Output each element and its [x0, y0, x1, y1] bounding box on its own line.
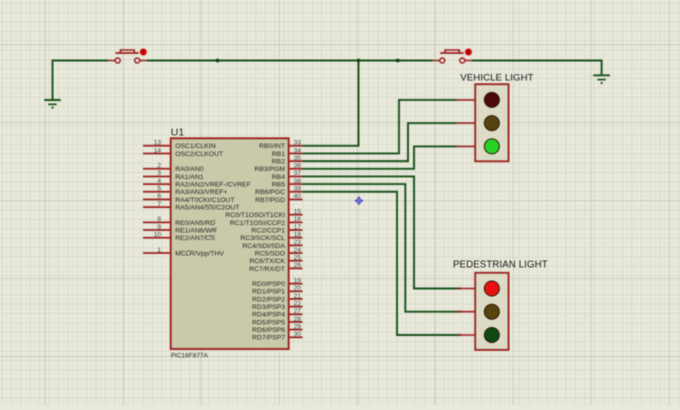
pin 24 (RC5/SDO) stub	[289, 252, 303, 254]
svg-text:MCLR/Vpp/THV: MCLR/Vpp/THV	[175, 250, 224, 257]
svg-text:RB4: RB4	[272, 174, 285, 181]
svg-text:15: 15	[294, 209, 302, 216]
pin 23 (RC4/SDI/SDA) stub	[289, 244, 303, 246]
svg-text:29: 29	[294, 323, 302, 330]
pin 33 (RB0/INT) stub	[289, 145, 303, 147]
actuator marker of button SW2	[465, 49, 472, 56]
svg-text:RC2/CCP1: RC2/CCP1	[251, 227, 285, 234]
svg-text:RD7/PSP7: RD7/PSP7	[252, 335, 285, 342]
svg-text:23: 23	[294, 239, 302, 246]
wire: RB5 pin38 to pedestrian amber	[303, 184, 462, 312]
vehicle light red terminal stub	[457, 99, 476, 101]
svg-text:RE0/AN5/RD: RE0/AN5/RD	[175, 220, 215, 227]
svg-text:21: 21	[294, 293, 302, 300]
svg-text:RE2/AN7/CS: RE2/AN7/CS	[175, 235, 215, 242]
wire: RB1 pin34 to vehicle red	[303, 100, 457, 154]
svg-text:34: 34	[294, 147, 302, 154]
svg-text:VEHICLE LIGHT: VEHICLE LIGHT	[460, 73, 533, 84]
pin 38 (RB5) stub	[289, 183, 303, 185]
svg-text:RC3/SCK/SCL: RC3/SCK/SCL	[240, 235, 285, 242]
svg-text:RB3/PGM: RB3/PGM	[254, 166, 285, 173]
pedestrian light green lamp	[484, 328, 499, 343]
svg-text:RA0/AN0: RA0/AN0	[175, 166, 204, 173]
svg-text:25: 25	[294, 255, 302, 262]
svg-text:26: 26	[294, 262, 302, 269]
pin 10 (RE2/AN7/CS) stub	[143, 237, 171, 239]
vehicle light amber terminal stub	[457, 122, 476, 124]
pin 7 (RA5/AN4/SS/C2OUT) stub	[143, 206, 171, 208]
push button SW2	[433, 50, 472, 63]
svg-text:37: 37	[294, 170, 302, 177]
pin 39 (RB6/PGC) stub	[289, 191, 303, 193]
pedestrian light amber lamp	[484, 304, 499, 319]
svg-text:RA3/AN3/VREF+: RA3/AN3/VREF+	[175, 189, 227, 196]
svg-text:RE1/AN6/WR: RE1/AN6/WR	[175, 227, 217, 234]
svg-text:27: 27	[294, 308, 302, 315]
ground (right)	[593, 75, 610, 84]
svg-text:RB1: RB1	[272, 151, 285, 158]
svg-text:PEDESTRIAN LIGHT: PEDESTRIAN LIGHT	[453, 260, 548, 271]
actuator marker of button SW1	[140, 49, 147, 56]
svg-text:39: 39	[294, 186, 302, 193]
vehicle light green lamp	[484, 139, 499, 154]
svg-text:OSC1/CLKIN: OSC1/CLKIN	[175, 143, 216, 150]
svg-text:RB6/PGC: RB6/PGC	[255, 189, 285, 196]
svg-text:RB0/INT: RB0/INT	[259, 143, 285, 150]
pin 2 (RA0/AN0) stub	[143, 168, 171, 170]
svg-text:20: 20	[294, 285, 302, 292]
pin 22 (RD3/PSP3) stub	[289, 306, 303, 308]
junction dot on rail (left)	[216, 59, 220, 63]
pin 34 (RB1) stub	[289, 152, 303, 154]
pin 5 (RA3/AN3/VREF+) stub	[143, 191, 171, 193]
svg-text:RC4/SDI/SDA: RC4/SDI/SDA	[242, 243, 285, 250]
svg-text:5: 5	[157, 186, 161, 193]
pin 37 (RB4) stub	[289, 175, 303, 177]
pin 8 (RE0/AN5/RD) stub	[143, 221, 171, 223]
pedestrian light amber terminal stub	[457, 311, 476, 313]
svg-text:28: 28	[294, 316, 302, 323]
pin 17 (RC2/CCP1) stub	[289, 229, 303, 231]
svg-text:9: 9	[157, 224, 161, 231]
svg-text:RC1/T1OSI/CCP2: RC1/T1OSI/CCP2	[230, 220, 285, 227]
svg-text:24: 24	[294, 247, 302, 254]
svg-text:8: 8	[157, 216, 161, 223]
svg-text:6: 6	[157, 193, 161, 200]
svg-text:U1: U1	[171, 126, 185, 138]
svg-text:RA5/AN4/SS/C2OUT: RA5/AN4/SS/C2OUT	[175, 204, 239, 211]
svg-text:16: 16	[294, 216, 302, 223]
pin 3 (RA1/AN1) stub	[143, 175, 171, 177]
svg-text:RD4/PSP4: RD4/PSP4	[252, 312, 285, 319]
svg-text:RD2/PSP2: RD2/PSP2	[252, 296, 285, 303]
pin 1 (MCLR/Vpp/THV) stub	[143, 252, 171, 254]
wire: rail right segment to ground	[472, 61, 602, 76]
pin 4 (RA2/AN2/VREF-/CVREF) stub	[143, 183, 171, 185]
svg-text:RD1/PSP1: RD1/PSP1	[252, 289, 285, 296]
pin 9 (RE1/AN6/WR) stub	[143, 229, 171, 231]
vehicle light green terminal stub	[457, 145, 476, 147]
pin 26 (RC7/RX/DT) stub	[289, 267, 303, 269]
wire: RB2 pin35 to vehicle amber	[303, 123, 457, 161]
svg-text:OSC2/CLKOUT: OSC2/CLKOUT	[175, 151, 223, 158]
junction dot on rail	[396, 59, 400, 63]
svg-text:RB7/PGD: RB7/PGD	[255, 197, 285, 204]
vehicle light red lamp	[484, 92, 499, 107]
svg-text:22: 22	[294, 300, 302, 307]
svg-text:36: 36	[294, 163, 302, 170]
svg-text:RD3/PSP3: RD3/PSP3	[252, 304, 285, 311]
wire: ground rail left segment	[53, 61, 109, 100]
wire: RB6 pin39 to pedestrian green	[303, 192, 462, 335]
svg-text:7: 7	[157, 201, 161, 208]
junction dot on rail (to RB0)	[357, 59, 361, 63]
marker: blue origin diamond	[355, 196, 364, 205]
svg-text:RA1/AN1: RA1/AN1	[175, 174, 204, 181]
svg-text:19: 19	[294, 277, 302, 284]
push button SW1	[108, 50, 147, 63]
pin 18 (RC3/SCK/SCL) stub	[289, 237, 303, 239]
svg-text:38: 38	[294, 178, 302, 185]
svg-text:RA4/T0CKI/C1OUT: RA4/T0CKI/C1OUT	[175, 197, 234, 204]
pedestrian light green terminal stub	[457, 334, 476, 336]
wire: RB4 pin37 to pedestrian red	[303, 176, 462, 288]
svg-text:RC6/TX/CK: RC6/TX/CK	[249, 258, 285, 265]
pin 35 (RB2) stub	[289, 160, 303, 162]
pin 29 (RD6/PSP6) stub	[289, 329, 303, 331]
svg-text:30: 30	[294, 331, 302, 338]
ground (left)	[44, 100, 61, 109]
wire: RB3 pin36 to vehicle green	[303, 146, 457, 168]
svg-text:33: 33	[294, 140, 302, 147]
svg-text:RD5/PSP5: RD5/PSP5	[252, 319, 285, 326]
svg-text:RC0/T1OSO/T1CKI: RC0/T1OSO/T1CKI	[225, 212, 285, 219]
svg-text:RB5: RB5	[272, 182, 285, 189]
pedestrian light red terminal stub	[457, 288, 476, 290]
svg-text:35: 35	[294, 155, 302, 162]
svg-text:4: 4	[157, 178, 161, 185]
traffic light pedestrian light body	[475, 273, 508, 350]
pin 20 (RD1/PSP1) stub	[289, 290, 303, 292]
svg-text:2: 2	[157, 163, 161, 170]
svg-text:RD6/PSP6: RD6/PSP6	[252, 327, 285, 334]
pin 40 (RB7/PGD) stub	[289, 198, 303, 200]
svg-text:1: 1	[157, 247, 161, 254]
IC U1 PIC16F877A body	[171, 138, 289, 349]
pin 19 (RD0/PSP0) stub	[289, 283, 303, 285]
vehicle light amber lamp	[484, 116, 499, 131]
svg-text:RC7/RX/DT: RC7/RX/DT	[249, 266, 285, 273]
pin 14 (OSC2/CLKOUT) stub	[143, 152, 171, 154]
svg-text:RA2/AN2/VREF-/CVREF: RA2/AN2/VREF-/CVREF	[175, 182, 251, 189]
traffic light vehicle light body	[475, 84, 508, 161]
svg-text:PIC16F877A: PIC16F877A	[171, 353, 209, 360]
svg-text:14: 14	[154, 147, 162, 154]
pin 30 (RD7/PSP7) stub	[289, 336, 303, 338]
svg-text:10: 10	[154, 232, 162, 239]
svg-text:18: 18	[294, 232, 302, 239]
svg-text:RC5/SDO: RC5/SDO	[255, 250, 285, 257]
pin 28 (RD5/PSP5) stub	[289, 321, 303, 323]
pin 15 (RC0/T1OSO/T1CKI) stub	[289, 214, 303, 216]
pin 6 (RA4/T0CKI/C1OUT) stub	[143, 198, 171, 200]
svg-text:40: 40	[294, 193, 302, 200]
pin 27 (RD4/PSP4) stub	[289, 313, 303, 315]
pin 25 (RC6/TX/CK) stub	[289, 260, 303, 262]
pedestrian light red lamp	[484, 281, 499, 296]
wire: rail between buttons	[147, 60, 433, 62]
pin 21 (RD2/PSP2) stub	[289, 298, 303, 300]
pin 16 (RC1/T1OSI/CCP2) stub	[289, 221, 303, 223]
pin 36 (RB3/PGM) stub	[289, 168, 303, 170]
svg-text:17: 17	[294, 224, 302, 231]
pin 13 (OSC1/CLKIN) stub	[143, 145, 171, 147]
svg-text:13: 13	[154, 140, 162, 147]
svg-text:3: 3	[157, 170, 161, 177]
wire: RB0 pin33 to button rail	[303, 61, 359, 146]
svg-text:RD0/PSP0: RD0/PSP0	[252, 281, 285, 288]
svg-text:RB2: RB2	[272, 159, 285, 166]
